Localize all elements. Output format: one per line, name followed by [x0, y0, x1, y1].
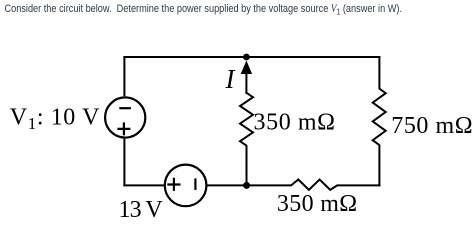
label V1: 10 V [10, 105, 100, 134]
svg-text:13 V: 13 V [119, 197, 164, 220]
label 13 V [119, 197, 164, 223]
wire left vertical upper [123, 56, 125, 96]
wire bottom right segment [337, 184, 381, 186]
svg-text:V1: 10 V: V1: 10 V [10, 105, 100, 134]
node junction bottom [243, 182, 250, 189]
svg-text:I: I [225, 64, 237, 94]
wire middle vertical lower [246, 145, 248, 186]
resistor R bottom 350 mOhm [291, 180, 337, 190]
node junction top [243, 54, 250, 61]
wire right vertical lower [378, 145, 380, 187]
label 750 mOhm [391, 113, 473, 139]
resistor R right 750 mOhm [373, 89, 386, 145]
svg-text:750 mΩ: 750 mΩ [391, 113, 473, 139]
label 350 mOhm middle [254, 110, 336, 136]
label I [225, 64, 237, 94]
label 350 mOhm bottom [277, 191, 358, 217]
svg-text:350 mΩ: 350 mΩ [254, 110, 336, 136]
svg-text:350 mΩ: 350 mΩ [277, 191, 358, 217]
problem statement text [5, 3, 402, 16]
wire left vertical lower [123, 139, 125, 187]
voltage source 13 V [165, 165, 207, 207]
voltage source V1 [105, 97, 145, 137]
wire top horizontal [123, 56, 380, 58]
resistor R middle 350 mOhm [240, 93, 253, 146]
wire bottom middle segment [207, 184, 292, 186]
wire bottom left segment [123, 184, 165, 186]
svg-text:Consider the circuit below. D: Consider the circuit below. Determine th… [5, 3, 402, 16]
current arrow I [241, 61, 252, 95]
wire right vertical upper [378, 56, 380, 89]
